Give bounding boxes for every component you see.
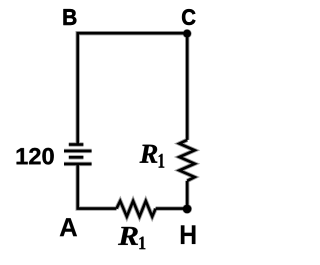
node H terminal dot — [183, 205, 192, 214]
wire: right resistor down to node H — [186, 181, 189, 209]
battery B1 plate short (top) — [69, 143, 84, 146]
node C terminal dot — [183, 30, 191, 38]
label H — [181, 225, 196, 244]
wire: battery positive plate up through node B across the top to node C — [78, 33, 188, 144]
label R (bottom resistor R1) — [118, 227, 138, 245]
label C — [182, 9, 195, 25]
label R (right resistor R1) — [140, 145, 158, 163]
battery B1 plate short — [69, 156, 84, 159]
label A — [60, 218, 77, 236]
wire: battery negative plate down through node A to bottom resistor — [78, 164, 117, 209]
resistor R1 (right, vertical zigzag) — [179, 140, 194, 181]
wire: bottom resistor to node H — [156, 207, 188, 210]
battery B1 plate long — [64, 150, 92, 153]
label 1 subscript (right R1) — [159, 154, 165, 168]
label 120 (battery value) — [17, 148, 54, 165]
label 1 subscript (bottom R1) — [139, 237, 145, 249]
battery B1 plate long (bottom) — [64, 163, 92, 166]
resistor R1 (bottom, horizontal zigzag) — [117, 201, 156, 217]
label B — [64, 9, 77, 25]
